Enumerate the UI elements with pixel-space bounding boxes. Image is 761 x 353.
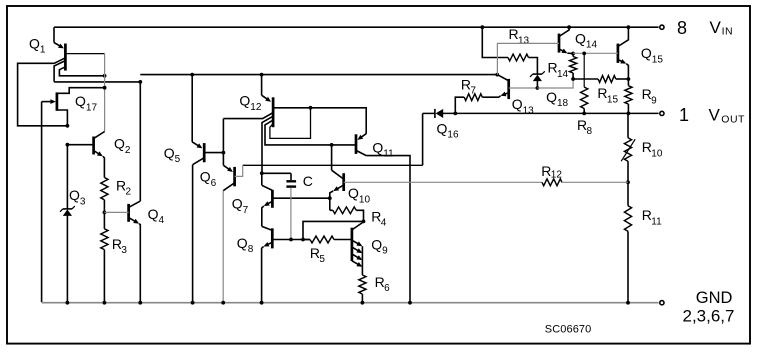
resistor R3 — [101, 212, 128, 302]
wire Q4 collector — [139, 82, 141, 201]
svg-text:2: 2 — [125, 145, 131, 156]
label SC06670 — [545, 324, 592, 336]
transistor Q8 — [237, 226, 310, 302]
wire Q6 base rail — [243, 164, 423, 166]
transistor Q1 — [29, 27, 65, 70]
svg-text:Q: Q — [69, 187, 80, 203]
resistor R11 — [624, 182, 662, 302]
svg-text:7: 7 — [470, 86, 476, 97]
resistor R8 — [577, 52, 593, 138]
transistor Q15 — [573, 25, 663, 81]
svg-text:6: 6 — [384, 283, 390, 294]
svg-text:8: 8 — [677, 18, 687, 38]
svg-text:16: 16 — [447, 130, 459, 141]
svg-text:Q: Q — [575, 30, 586, 46]
svg-text:Q: Q — [512, 96, 523, 112]
wire Q1 collector 2 — [59, 67, 106, 78]
transistor Q12 — [239, 73, 273, 128]
wire Q1 collector 1 — [54, 61, 65, 82]
resistor R9 — [625, 79, 657, 115]
svg-text:4: 4 — [159, 215, 165, 226]
svg-text:8: 8 — [248, 244, 254, 255]
svg-text:1: 1 — [40, 45, 46, 56]
svg-text:12: 12 — [551, 170, 563, 181]
transistor Q2 — [66, 132, 131, 178]
node VIN terminal pin 8 — [660, 18, 733, 38]
svg-text:GND: GND — [696, 289, 733, 307]
wire VOUT rail — [423, 112, 659, 114]
svg-text:Q: Q — [237, 235, 248, 251]
svg-text:11: 11 — [651, 216, 662, 227]
node VOUT terminal pin 1 — [660, 105, 745, 126]
node GND terminal pins 2,3,6,7 — [660, 289, 735, 326]
wire Q1 collector rail — [54, 80, 142, 84]
wire Q12 collector loop inner — [270, 108, 311, 139]
resistor R5 — [303, 236, 352, 265]
svg-text:OUT: OUT — [721, 114, 745, 126]
transistor Q14 — [497, 25, 597, 74]
wire Q1 collector loop — [65, 54, 106, 132]
svg-text:3: 3 — [121, 245, 127, 256]
svg-text:14: 14 — [586, 40, 598, 51]
wire VIN top rail — [54, 26, 659, 28]
resistor R10 trimmed — [621, 113, 663, 184]
svg-text:V: V — [710, 18, 722, 37]
svg-text:Q: Q — [546, 89, 557, 105]
svg-text:6: 6 — [211, 178, 217, 189]
svg-text:5: 5 — [319, 254, 325, 265]
zener Q18 — [530, 71, 569, 109]
wire Q12 collector top — [273, 106, 366, 134]
svg-text:Q: Q — [114, 136, 125, 152]
transistor Q11 — [332, 134, 410, 303]
resistor R4 — [330, 198, 387, 228]
svg-text:Q: Q — [164, 145, 175, 161]
transistor Q9 — [352, 222, 388, 275]
wire GND rail — [42, 302, 659, 304]
svg-text:14: 14 — [557, 69, 569, 80]
svg-text:9: 9 — [382, 246, 388, 257]
resistor R7 — [453, 76, 499, 115]
resistor R2 — [101, 178, 132, 215]
svg-text:Q: Q — [232, 196, 243, 212]
resistor R13 — [480, 25, 537, 74]
transistor Q5 — [164, 73, 226, 303]
wire Q17 gate to GND — [41, 102, 43, 302]
svg-text:13: 13 — [518, 35, 530, 46]
capacitor C — [262, 173, 313, 241]
svg-text:Q: Q — [239, 93, 250, 109]
svg-text:4: 4 — [381, 218, 387, 229]
svg-text:12: 12 — [250, 102, 262, 113]
junction GND rail dots — [66, 301, 630, 305]
svg-text:2: 2 — [126, 187, 132, 198]
svg-text:Q: Q — [348, 185, 359, 201]
svg-text:18: 18 — [557, 98, 569, 109]
wire Q12 collector a — [262, 116, 273, 173]
resistor R15 — [573, 76, 628, 106]
wire Q1 base — [18, 58, 70, 128]
svg-text:9: 9 — [651, 95, 657, 106]
wire Q12 base — [223, 113, 273, 119]
svg-text:10: 10 — [359, 194, 371, 205]
svg-text:Q: Q — [148, 206, 159, 222]
transistor Q17 — [42, 88, 105, 126]
svg-text:Q: Q — [371, 237, 382, 253]
svg-text:IN: IN — [722, 25, 734, 37]
svg-text:1: 1 — [679, 105, 689, 125]
svg-text:Q: Q — [29, 35, 40, 51]
svg-text:15: 15 — [607, 94, 619, 105]
svg-text:C: C — [303, 173, 313, 189]
svg-text:10: 10 — [651, 148, 663, 159]
zener Q3 — [60, 145, 86, 303]
wire Q12 collector loop outer — [265, 120, 334, 147]
wire R4 node to R5 row — [301, 221, 363, 241]
svg-text:7: 7 — [243, 205, 249, 216]
resistor R6 — [359, 274, 390, 303]
transistor Q10 — [328, 145, 371, 206]
transistor Q4 — [104, 201, 164, 303]
wire Q13 base to R14 — [537, 79, 573, 88]
svg-text:17: 17 — [86, 102, 98, 113]
svg-text:3: 3 — [80, 196, 86, 207]
svg-text:Q: Q — [437, 120, 448, 136]
resistor R14 — [548, 54, 577, 81]
svg-text:Q: Q — [75, 93, 86, 109]
svg-text:V: V — [709, 106, 721, 125]
svg-text:Q: Q — [372, 139, 383, 155]
transistor Q13 — [495, 73, 537, 117]
svg-text:5: 5 — [175, 154, 181, 165]
svg-text:11: 11 — [383, 149, 394, 160]
resistor R12 — [344, 163, 628, 186]
transistor Q7 — [232, 171, 330, 226]
transistor Q6 — [200, 119, 243, 303]
diode Q16 — [423, 109, 459, 165]
svg-text:2,3,6,7: 2,3,6,7 — [683, 307, 735, 326]
wire bias rail — [140, 74, 497, 76]
svg-text:SC06670: SC06670 — [545, 324, 592, 336]
svg-text:Q: Q — [200, 169, 211, 185]
svg-text:15: 15 — [652, 54, 664, 65]
svg-text:Q: Q — [641, 45, 652, 61]
svg-text:13: 13 — [523, 105, 535, 116]
svg-text:8: 8 — [587, 126, 593, 137]
